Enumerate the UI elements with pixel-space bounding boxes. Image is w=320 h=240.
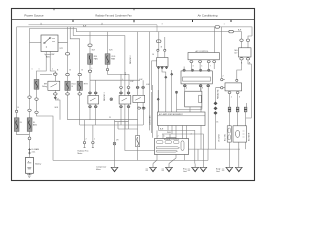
wire fuse B column [108,32,130,85]
svg-text:3: 3 [193,66,194,68]
svg-text:Motor: Motor [78,152,83,155]
wire center relay left loop [152,61,157,133]
center relay pins [157,49,159,51]
svg-text:1J: 1J [57,99,59,101]
U2 wide box [181,71,212,84]
wire center relay feeds [158,32,165,58]
R2b pins [120,86,123,88]
svg-text:Air Conditioning: Air Conditioning [198,13,218,17]
fuse FL block left [14,118,19,132]
svg-text:A/C SW: A/C SW [224,134,227,141]
wire H mid lines [68,120,144,125]
wire center relay bottom pins [159,67,172,131]
svg-text:Gnd: Gnd [183,171,187,173]
wire bottom ground bus [53,159,208,161]
svg-text:FAN NO.2: FAN NO.2 [129,55,132,64]
diamond below relay R1 [54,97,56,99]
U1 bottom pins [190,61,193,63]
wire ignition right pin to capsule column [58,27,68,120]
ruler line [29,25,158,32]
svg-text:Radiator Fan and Condenser Fan: Radiator Fan and Condenser Fan [95,14,132,17]
ignition switch box [41,35,58,52]
fuse row1 b [65,81,70,90]
relay R1 box [48,81,60,90]
capsule above fuse A [88,44,92,46]
ground equal marks [146,169,225,170]
wire box Q stubs [182,126,186,161]
U1 wide box [188,53,219,60]
svg-text:Ignition SW: Ignition SW [45,53,55,56]
ground G2 [150,167,157,172]
svg-text:16 COND: 16 COND [218,134,220,142]
wire amp box pins down [168,126,176,138]
svg-text:AM1: AM1 [46,56,50,59]
svg-text:2.0L: 2.0L [32,151,36,153]
capsule on bus A [215,26,220,29]
ground G5 [200,167,207,172]
svg-text:1: 1 [94,139,95,141]
fuse row1 c [77,81,82,90]
wire cluster verticals [150,32,159,138]
svg-text:Motor: Motor [96,168,101,171]
wire U1 feed [214,27,216,53]
MG CLT pins [240,39,243,41]
U2 bottom pins dark [183,85,186,87]
svg-text:ENGINE CONTROL: ENGINE CONTROL [164,139,179,141]
wire bus B second [30,28,242,39]
relay R2b box [119,96,131,105]
wire R2c feeds [138,32,144,96]
svg-text:BLOWER: BLOWER [248,132,250,141]
svg-text:1J: 1J [109,117,111,119]
svg-text:L-W: L-W [146,84,150,86]
wire right H line [186,148,240,150]
wire box M bottoms to connector pairs [230,94,247,126]
svg-text:FL: FL [20,122,22,124]
page frame [12,9,255,181]
wire small mesh center [115,122,138,129]
wire ECU feeds [157,130,176,138]
wire right connector rungs [198,149,208,160]
R2a pins [89,92,92,94]
fuse top B [105,54,110,65]
battery ground [27,173,31,177]
relay R2a box [88,96,99,105]
svg-text:FAN: FAN [94,57,98,60]
wire battery column x29.5 [29,28,31,157]
capsule center relay [156,40,161,43]
wire box M left feed [216,27,226,88]
B9 small box above amp [185,91,202,107]
wire fuse A column [89,32,91,81]
wire right section verticals [201,84,216,149]
radiator fan motor terminals [83,141,85,143]
svg-text:3: 3 [239,97,240,99]
wire H5 connector row line [40,74,52,76]
ground G4 [192,167,199,172]
wire relay R1 feeds [50,52,60,120]
svg-text:2: 2 [223,76,224,78]
svg-text:AM2: AM2 [33,123,37,126]
svg-text:1: 1 [52,69,53,71]
ovals below relay row1 [54,93,58,95]
fuse row1 a [34,80,39,90]
wire ignition bottom stub [37,52,54,161]
svg-text:Power Source: Power Source [24,13,43,17]
svg-text:7: 7 [210,66,211,68]
svg-text:COND FAN: COND FAN [149,115,152,125]
wire bottom right boxes to grounds [229,142,245,163]
svg-text:L-W: L-W [139,79,143,81]
wire MG CLT column [237,36,252,118]
wire x79.7 column [70,27,80,125]
wire ignition left pin [30,41,42,43]
U2 top pins [183,69,185,71]
svg-text:A/C AMPLIFIER ASSEMBLY: A/C AMPLIFIER ASSEMBLY [159,113,184,116]
wire compressor column [115,120,122,164]
wire ECU grounds [153,155,176,164]
svg-text:1: 1 [39,69,40,71]
svg-text:DUAL SW: DUAL SW [217,89,220,98]
wire noise filter column [137,147,139,161]
wire H6 and R2a pins [90,80,140,95]
svg-text:L-W: L-W [130,81,134,83]
wire bus C third [73,27,125,36]
wire radiator fan motor drops [85,120,93,148]
box M dual pressure sw [225,83,242,91]
svg-text:Gnd: Gnd [216,171,220,173]
svg-text:FAN: FAN [111,57,115,60]
relay R2c box [133,95,145,102]
capsule above fuse row1 b [65,53,69,55]
wire U1 to U2 pins [184,63,214,69]
svg-text:1: 1 [231,97,232,99]
A/C amplifier box [158,112,206,126]
ignition feed connectors [28,96,31,98]
svg-text:2: 2 [158,136,159,138]
FL MAIN symbol [28,148,30,155]
svg-text:FAN NO.1: FAN NO.1 [103,92,106,101]
svg-text:5: 5 [201,66,202,68]
wire U2 bottoms [185,87,208,93]
capsule on bus B [229,30,234,33]
wire staircase to grounds [159,130,204,163]
oval connectors row y74.5 [54,73,58,75]
svg-text:16: 16 [216,122,218,124]
svg-text:A/C CONTROL: A/C CONTROL [196,50,209,53]
circle junction between R2a R2b [110,98,113,101]
compressor circle connector [113,142,116,145]
svg-text:4: 4 [186,88,187,90]
wire bus A top [17,27,252,36]
ECU connector box [155,139,189,155]
svg-text:Relay: Relay [42,86,47,88]
svg-text:1: 1 [164,136,165,138]
svg-text:ST2: ST2 [60,48,63,50]
wire relay row2 bottoms [90,103,144,136]
svg-text:2: 2 [86,139,87,141]
wire amp top pin column [177,93,202,112]
MG CLT relay box [239,48,252,57]
wire long center-left vertical [125,36,155,151]
header band bottom line [12,19,255,21]
box M pins [236,79,238,81]
svg-text:14: 14 [152,54,154,56]
header ticks [73,20,231,23]
ground G6 [226,167,233,172]
bottom right box P [233,126,247,142]
battery box [26,157,34,173]
svg-text:Battery: Battery [35,163,41,166]
ground G7 [235,167,242,172]
relay center box [157,58,168,67]
wire R2b feeds [121,74,129,95]
cluster diamonds [165,73,173,78]
wire left feed column x16.6 [17,27,30,135]
dark connector stack x215.5 [214,102,217,105]
oval under fuse A / circle under fuse B [88,70,92,72]
svg-text:1: 1 [32,69,33,71]
svg-text:L: L [122,79,123,81]
wire ground stubs [115,164,239,168]
svg-text:HTR: HTR [84,84,89,86]
svg-text:4: 4 [191,134,192,136]
fuse FL block right [27,118,32,132]
fuse noise filter [136,136,140,147]
svg-text:L: L [92,68,93,70]
amp top pin [175,91,177,93]
R2c pins [136,86,139,88]
fuse top A [88,54,93,65]
ground G3 [166,167,173,172]
svg-text:8: 8 [202,88,203,90]
connector pairs below box M [228,107,231,112]
ground G1 [111,167,118,172]
bottom right narrow box N [227,126,231,142]
